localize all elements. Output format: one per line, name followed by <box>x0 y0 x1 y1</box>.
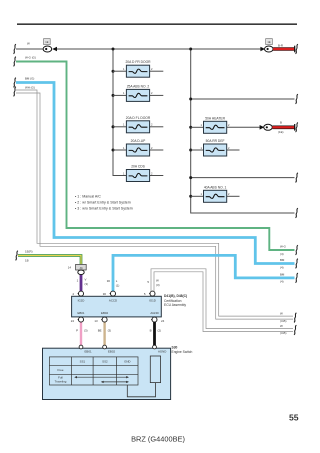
svg-text:(4): (4) <box>280 280 284 284</box>
svg-text:D41(B), D48(C): D41(B), D48(C) <box>164 294 187 298</box>
svg-text:AGND: AGND <box>158 350 166 354</box>
svg-text:W: W <box>27 42 30 46</box>
svg-text:(3): (3) <box>108 329 112 333</box>
svg-text:EB02: EB02 <box>108 350 115 354</box>
svg-text:14: 14 <box>68 266 72 270</box>
svg-text:EB02: EB02 <box>101 311 108 315</box>
svg-text:1B: 1B <box>25 259 29 263</box>
svg-text:S30: S30 <box>172 346 178 350</box>
svg-text:20A D FL DOOR: 20A D FL DOOR <box>126 116 151 120</box>
svg-text:W: W <box>280 324 283 328</box>
svg-text:EB01: EB01 <box>77 311 84 315</box>
svg-text:20A CDS: 20A CDS <box>131 165 145 169</box>
svg-text:Traveling: Traveling <box>55 380 67 384</box>
svg-text:B: B <box>280 121 282 125</box>
svg-text:24: 24 <box>161 319 165 323</box>
svg-text:40A ABS NO. 1: 40A ABS NO. 1 <box>204 185 227 189</box>
svg-text:(3-B): (3-B) <box>280 331 286 335</box>
svg-text:BE: BE <box>98 329 102 333</box>
svg-text:(3): (3) <box>84 329 88 333</box>
svg-text:BM: BM <box>280 258 285 262</box>
svg-text:• 3 : w/o Smart Entry & Start: • 3 : w/o Smart Entry & Start System <box>75 207 133 211</box>
svg-text:(1E): (1E) <box>278 130 283 134</box>
svg-text:• 2 : w/ Smart Entry & Start S: • 2 : w/ Smart Entry & Start System <box>75 201 131 205</box>
svg-text:1E: 1E <box>45 40 48 44</box>
svg-text:W-G: W-G <box>280 245 287 249</box>
svg-text:W-G (G): W-G (G) <box>25 56 36 60</box>
svg-text:BRZ (G4400BE): BRZ (G4400BE) <box>131 435 185 444</box>
svg-text:30: 30 <box>103 292 107 296</box>
svg-text:SS2: SS2 <box>102 359 108 363</box>
svg-text:BM (G): BM (G) <box>25 77 34 81</box>
svg-text:(4): (4) <box>280 252 284 256</box>
svg-text:(3): (3) <box>85 282 89 286</box>
svg-text:(4): (4) <box>280 265 284 269</box>
svg-text:50A RR DEF: 50A RR DEF <box>206 139 225 143</box>
svg-text:25A ABS NO. 2: 25A ABS NO. 2 <box>127 84 150 88</box>
svg-text:B: B <box>150 329 152 333</box>
svg-text:AGND: AGND <box>150 311 158 315</box>
svg-text:1E(R): 1E(R) <box>25 250 33 254</box>
svg-text:WH (G): WH (G) <box>25 86 35 90</box>
svg-text:55: 55 <box>289 413 299 423</box>
svg-text:24: 24 <box>71 319 75 323</box>
svg-text:50A HEATER: 50A HEATER <box>205 116 225 120</box>
svg-text:P: P <box>76 329 78 333</box>
svg-text:J4: J4 <box>79 266 83 270</box>
svg-text:(2): (2) <box>158 329 162 333</box>
svg-text:V: V <box>85 277 87 281</box>
svg-text:• 1 : Manual A/C: • 1 : Manual A/C <box>75 195 101 199</box>
svg-text:GND: GND <box>124 359 130 363</box>
svg-text:W: W <box>280 312 283 316</box>
svg-text:20A D FR DOOR: 20A D FR DOOR <box>125 60 151 64</box>
svg-text:W: W <box>156 279 159 283</box>
svg-text:ECU Assembly: ECU Assembly <box>164 303 186 307</box>
svg-text:ACCD: ACCD <box>109 299 117 303</box>
svg-text:SS1: SS1 <box>80 359 86 363</box>
svg-text:EB01: EB01 <box>85 350 92 354</box>
svg-text:BM: BM <box>280 272 285 276</box>
svg-text:1E: 1E <box>267 40 270 44</box>
svg-text:B-R: B-R <box>278 44 283 48</box>
svg-text:13: 13 <box>94 319 98 323</box>
svg-text:(3-B): (3-B) <box>280 319 286 323</box>
svg-text:IG2D: IG2D <box>78 299 85 303</box>
svg-text:20A D-UP: 20A D-UP <box>131 139 146 143</box>
svg-text:Engine Switch: Engine Switch <box>172 350 193 354</box>
svg-text:IG1D: IG1D <box>149 299 156 303</box>
svg-text:30: 30 <box>107 279 111 283</box>
svg-text:(1): (1) <box>116 284 120 288</box>
svg-text:Free: Free <box>58 368 64 372</box>
svg-text:(3): (3) <box>156 283 160 287</box>
